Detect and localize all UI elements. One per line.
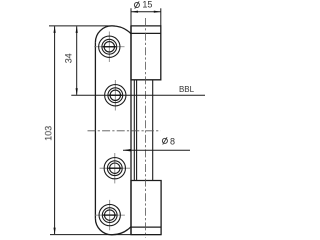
- dimension D15 label: [134, 1, 139, 8]
- hole 2 crosshair: [114, 80, 116, 111]
- dimension D8 arrow: [123, 149, 131, 151]
- hole 2 (countersunk screw hole): [105, 85, 126, 106]
- hole 3 screw slot: [108, 167, 121, 169]
- hole 1 screw slot: [103, 46, 116, 48]
- dimension D8 leader line: [123, 149, 190, 151]
- dimension D15 right arrow: [154, 11, 161, 13]
- barrel top sleeve: [131, 26, 161, 80]
- hole 4 crosshair: [95, 200, 125, 230]
- hole 3 crosshair: [100, 153, 130, 183]
- extension line to hole 2 / BBL reference: [71, 94, 130, 96]
- leaf top rounded corner: [95, 26, 131, 42]
- hole 2 screw slot: [109, 94, 122, 96]
- svg-text:34: 34: [64, 53, 74, 63]
- dimension D15 left arrow: [131, 11, 138, 13]
- dimension 34 line: [76, 26, 78, 94]
- BBL reference line: [131, 94, 205, 96]
- dimension 103 top arrow: [54, 26, 56, 33]
- sleeve bottom chamfer line: [131, 226, 161, 228]
- hole 4 (countersunk screw hole): [99, 204, 120, 225]
- dimension 103 bottom arrow: [54, 228, 56, 235]
- dimension D15 line: [131, 11, 161, 13]
- hole 3 (countersunk screw hole): [104, 158, 125, 179]
- svg-text:15: 15: [142, 0, 152, 10]
- leaf left edge: [94, 42, 96, 218]
- barrel bottom sleeve: [131, 181, 161, 235]
- leaf right edge / barrel left edge: [130, 26, 132, 235]
- hinge leaf outline: [95, 26, 131, 235]
- leaf bottom rounded corner: [95, 218, 131, 234]
- dimension D15 extension lines: [131, 8, 161, 26]
- hinge pin between sleeves: [134, 80, 152, 181]
- dimension 103 line: [54, 26, 56, 234]
- bottom extension line / sleeve bottom: [50, 234, 161, 236]
- svg-text:103: 103: [43, 126, 53, 141]
- svg-text:8: 8: [170, 137, 175, 147]
- horizontal mid centerline: [88, 130, 161, 132]
- dimension D8 label: [162, 137, 167, 144]
- barrel vertical centerline: [144, 18, 146, 238]
- hole 4 screw slot: [103, 214, 116, 216]
- svg-text:BBL: BBL: [179, 85, 195, 94]
- top extension line: [49, 25, 115, 27]
- sleeve top chamfer line: [131, 32, 161, 34]
- hole 1 (countersunk screw hole): [99, 36, 120, 57]
- hole 1 crosshair: [94, 32, 124, 63]
- dimension 34 top arrow: [76, 26, 78, 33]
- dimension 34 bottom arrow: [76, 88, 78, 95]
